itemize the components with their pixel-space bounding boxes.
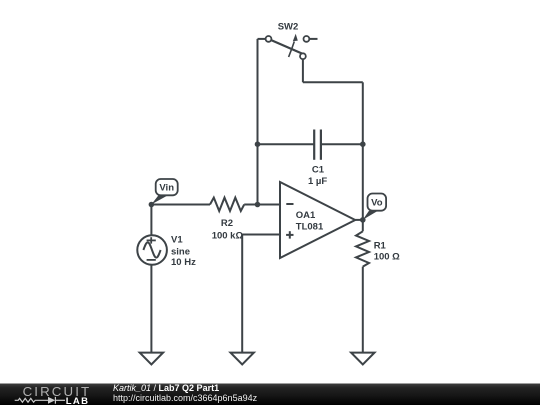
wire horizontal from switch common to right vertical [303, 81, 363, 83]
wire right vertical from C1 junction down to output node [362, 144, 364, 220]
ground plus input [231, 353, 254, 365]
svg-text:1 µF: 1 µF [308, 176, 327, 187]
wire V1 bottom to ground [150, 265, 152, 353]
voltage source V1 circle body [137, 235, 167, 265]
wire R1 bottom to ground [362, 267, 364, 353]
switch SW2 lever [271, 40, 304, 55]
switch SW2 [266, 21, 318, 59]
node Vin label [151, 179, 177, 204]
op-amp OA1 non-inverting input marker [286, 234, 293, 236]
node Vo callout wedge [363, 211, 378, 220]
node Vin callout wedge [151, 195, 168, 204]
V1 plus mark [147, 239, 156, 241]
svg-text:V1: V1 [171, 235, 183, 246]
node Vo box [368, 194, 387, 211]
svg-text:http://circuitlab.com/c3664p6n: http://circuitlab.com/c3664p6n5a94z [113, 393, 258, 403]
svg-text:100 Ω: 100 Ω [374, 252, 400, 263]
ground V1 [140, 353, 163, 365]
svg-text:100 kΩ: 100 kΩ [212, 230, 244, 241]
wire left vertical from switch down to C1 left junction [257, 39, 259, 144]
node Vo label [363, 194, 386, 220]
wire Vin node down to V1 top [150, 205, 152, 236]
op-amp OA1 triangle body [280, 182, 355, 258]
switch SW2 common terminal [300, 53, 306, 59]
svg-text:R1: R1 [374, 240, 387, 251]
wire left vertical from C1 junction down to R2 output junction [257, 144, 259, 204]
ground R1 [351, 353, 374, 365]
wire op-amp plus input to left [242, 234, 280, 236]
node Vin junction [149, 202, 155, 208]
node Vo junction [360, 217, 366, 223]
svg-text:R2: R2 [221, 218, 233, 229]
wire switch left terminal to left vertical [258, 38, 266, 40]
svg-text:Vo: Vo [371, 198, 383, 209]
CircuitLab logo resistor-diode graphic [15, 397, 65, 404]
capacitor C1 plates [313, 130, 315, 160]
switch SW2 right terminal stub [309, 38, 317, 40]
svg-text:10 Hz: 10 Hz [171, 257, 196, 268]
junction C1 left [255, 141, 261, 147]
svg-text:Vin: Vin [159, 183, 174, 194]
wire C1 left lead [258, 143, 315, 145]
svg-text:Kartik_01 / Lab7 Q2 Part1: Kartik_01 / Lab7 Q2 Part1 [113, 383, 219, 393]
svg-text:sine: sine [171, 246, 190, 257]
wire Vin node to R2 left lead [151, 204, 210, 206]
wire switch common terminal down [302, 59, 304, 82]
svg-text:TL081: TL081 [296, 221, 324, 232]
op-amp OA1 inverting input marker [286, 203, 293, 205]
wire op-amp output to node [355, 219, 363, 221]
junction C1 right [360, 141, 366, 147]
resistor R1 [356, 231, 400, 266]
V1 sine waveform [143, 242, 160, 257]
wire R2 right lead to op-amp minus input [244, 204, 280, 206]
capacitor C1 [308, 130, 327, 187]
switch SW2 right terminal [304, 36, 310, 42]
V1 minus mark [147, 259, 156, 261]
svg-text:OA1: OA1 [296, 210, 316, 221]
CircuitLab logo wordmark [23, 384, 92, 405]
switch SW2 left terminal [266, 36, 272, 42]
svg-text:C1: C1 [312, 164, 325, 175]
wire plus input vertical down to ground [241, 235, 243, 353]
wire output node down to R1 [362, 220, 364, 231]
node Vin box [156, 179, 178, 195]
switch SW2 actuation arrow [289, 42, 295, 58]
wire right vertical down to C1 right junction [362, 82, 364, 144]
resistor R2 zigzag [210, 198, 244, 211]
svg-text:LAB: LAB [66, 396, 90, 405]
wire C1 right lead [321, 143, 363, 145]
resistor R2 [210, 198, 244, 242]
svg-text:SW2: SW2 [278, 21, 299, 32]
voltage source V1 [137, 235, 196, 268]
op-amp OA1 [280, 182, 355, 258]
junction R2 output [255, 202, 261, 208]
resistor R1 zigzag [356, 231, 369, 266]
